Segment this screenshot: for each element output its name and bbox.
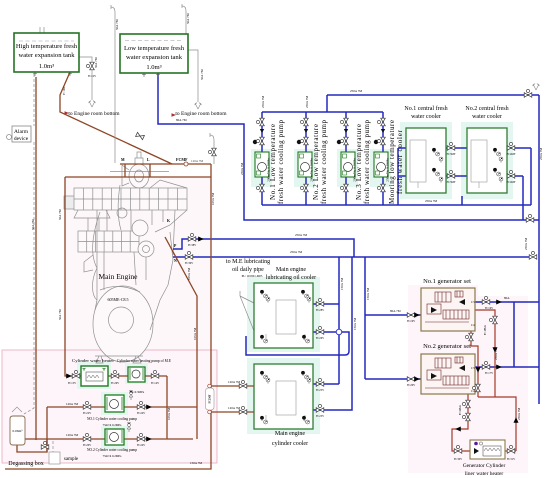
svg-text:50A 7M: 50A 7M bbox=[94, 57, 98, 68]
svg-text:No.2 generator set: No.2 generator set bbox=[423, 343, 471, 350]
svg-text:FC22V: FC22V bbox=[83, 412, 91, 415]
svg-text:80A 7M: 80A 7M bbox=[390, 309, 401, 313]
svg-text:Alarm: Alarm bbox=[14, 129, 29, 135]
svg-text:250A 7M: 250A 7M bbox=[295, 233, 307, 237]
svg-text:50A 7M: 50A 7M bbox=[200, 69, 204, 80]
svg-text:FC20V: FC20V bbox=[83, 444, 91, 447]
svg-text:250A 7M: 250A 7M bbox=[305, 96, 309, 108]
svg-text:FC23V: FC23V bbox=[316, 415, 324, 418]
svg-text:FC14V: FC14V bbox=[151, 382, 159, 385]
svg-text:FCMF: FCMF bbox=[176, 157, 188, 162]
svg-text:NO.1 Cylinder water cooling pu: NO.1 Cylinder water cooling pump bbox=[87, 416, 138, 421]
svg-text:K: K bbox=[167, 219, 170, 223]
svg-text:No.1 generator set: No.1 generator set bbox=[423, 278, 471, 285]
svg-text:50A 7M: 50A 7M bbox=[186, 13, 190, 24]
svg-text:250A 7M: 250A 7M bbox=[517, 408, 521, 420]
svg-text:FC25V: FC25V bbox=[316, 389, 324, 392]
svg-text:80A 7M: 80A 7M bbox=[176, 118, 187, 122]
svg-text:75m³/h 0.2MPa: 75m³/h 0.2MPa bbox=[103, 454, 122, 458]
svg-text:50A 7M: 50A 7M bbox=[58, 309, 62, 320]
svg-text:FC28V: FC28V bbox=[316, 309, 324, 312]
svg-text:FC4MF: FC4MF bbox=[507, 153, 516, 156]
svg-text:105A 7M: 105A 7M bbox=[167, 408, 171, 420]
svg-text:250A 7M: 250A 7M bbox=[261, 96, 265, 108]
svg-text:605ME-C8.5: 605ME-C8.5 bbox=[108, 297, 129, 302]
svg-text:C3: C3 bbox=[471, 366, 475, 370]
svg-text:FC26V: FC26V bbox=[316, 337, 324, 340]
svg-text:No.1 central fresh: No.1 central fresh bbox=[404, 105, 447, 112]
svg-text:150A 7M: 150A 7M bbox=[353, 318, 357, 330]
svg-text:Low temperature fresh: Low temperature fresh bbox=[124, 45, 185, 52]
svg-text:C3: C3 bbox=[471, 300, 475, 304]
svg-text:FC16V: FC16V bbox=[485, 307, 493, 310]
svg-text:FC30V: FC30V bbox=[454, 458, 462, 461]
svg-text:N: N bbox=[174, 259, 177, 263]
svg-text:50A 7M: 50A 7M bbox=[31, 219, 35, 230]
svg-text:PL: 1D/601-M05: PL: 1D/601-M05 bbox=[242, 274, 263, 278]
svg-text:FC2MF: FC2MF bbox=[209, 394, 212, 403]
svg-text:105A 7M: 105A 7M bbox=[193, 328, 197, 340]
svg-text:water expansion tank: water expansion tank bbox=[126, 54, 183, 61]
svg-text:fresh water cooling pump: fresh water cooling pump bbox=[277, 120, 285, 205]
svg-text:75m³/h 0.2MPa: 75m³/h 0.2MPa bbox=[103, 423, 122, 427]
svg-text:150A 7M: 150A 7M bbox=[340, 278, 344, 290]
svg-text:Main engine: Main engine bbox=[275, 431, 305, 437]
svg-text:water cooler: water cooler bbox=[411, 114, 441, 120]
svg-text:105A 7M: 105A 7M bbox=[211, 193, 215, 205]
svg-text:120A 7M: 120A 7M bbox=[66, 402, 78, 406]
svg-text:80A: 80A bbox=[504, 296, 510, 300]
svg-text:1.0m³: 1.0m³ bbox=[146, 64, 161, 71]
svg-text:150A 7M: 150A 7M bbox=[190, 461, 202, 465]
svg-text:FC19V: FC19V bbox=[407, 320, 415, 323]
svg-text:Main engine: Main engine bbox=[276, 267, 306, 273]
svg-text:sample: sample bbox=[64, 457, 79, 462]
svg-text:Hs=0.3MPa: Hs=0.3MPa bbox=[130, 390, 145, 394]
svg-text:FC15V: FC15V bbox=[68, 382, 76, 385]
svg-text:fresh water cooling pump: fresh water cooling pump bbox=[320, 120, 328, 205]
svg-text:1.0m³: 1.0m³ bbox=[39, 63, 54, 70]
svg-text:to Engine room bottom: to Engine room bottom bbox=[175, 111, 227, 117]
svg-text:105A 7M: 105A 7M bbox=[187, 268, 191, 280]
svg-text:250A 7M: 250A 7M bbox=[240, 163, 244, 175]
svg-text:120A 7M: 120A 7M bbox=[66, 433, 78, 437]
svg-text:oil daily pipe: oil daily pipe bbox=[232, 267, 264, 273]
svg-text:device: device bbox=[14, 136, 29, 142]
svg-text:FC12V: FC12V bbox=[88, 75, 96, 78]
svg-text:lubricating oil cooler: lubricating oil cooler bbox=[266, 275, 316, 281]
svg-text:water cooler: water cooler bbox=[472, 114, 502, 120]
svg-text:cylinder cooler: cylinder cooler bbox=[272, 441, 308, 447]
svg-text:250A 7M: 250A 7M bbox=[524, 238, 528, 250]
svg-text:High temperature fresh: High temperature fresh bbox=[16, 43, 78, 50]
svg-text:FC4MF: FC4MF bbox=[507, 181, 516, 184]
svg-text:120A 7M: 120A 7M bbox=[228, 406, 240, 410]
svg-text:Main Engine: Main Engine bbox=[99, 272, 139, 281]
svg-text:FC20V: FC20V bbox=[407, 384, 415, 387]
svg-text:250A 7M: 250A 7M bbox=[290, 250, 302, 254]
svg-text:120A 7M: 120A 7M bbox=[191, 159, 203, 163]
svg-text:fresh water cooler: fresh water cooler bbox=[396, 129, 404, 194]
svg-text:FC3MF: FC3MF bbox=[447, 153, 456, 156]
svg-text:to Engine room bottom: to Engine room bottom bbox=[68, 111, 120, 117]
svg-text:No.2 central fresh: No.2 central fresh bbox=[465, 105, 508, 112]
svg-text:FC24V: FC24V bbox=[137, 412, 145, 415]
svg-text:Cylinder water heating pump of: Cylinder water heating pump of M.E bbox=[117, 358, 171, 363]
svg-text:Generator Cylinder: Generator Cylinder bbox=[463, 463, 506, 469]
svg-text:FC31V: FC31V bbox=[507, 458, 515, 461]
svg-text:0.06m³: 0.06m³ bbox=[13, 429, 23, 433]
svg-text:FC17V: FC17V bbox=[485, 372, 493, 375]
svg-text:50A 7M: 50A 7M bbox=[58, 209, 62, 220]
svg-text:FC3MF: FC3MF bbox=[447, 181, 456, 184]
svg-text:FC39V: FC39V bbox=[185, 262, 193, 265]
svg-text:FC18Mx: FC18Mx bbox=[484, 324, 487, 335]
svg-text:250A 7M: 250A 7M bbox=[425, 199, 437, 203]
svg-text:C4: C4 bbox=[471, 323, 475, 327]
svg-text:Degassing box: Degassing box bbox=[8, 461, 44, 467]
svg-text:liner water heater: liner water heater bbox=[465, 471, 504, 477]
svg-text:250A 7M: 250A 7M bbox=[539, 148, 543, 160]
svg-text:fresh water cooling pump: fresh water cooling pump bbox=[363, 120, 371, 205]
svg-text:120A 7M: 120A 7M bbox=[228, 380, 240, 384]
svg-text:NO.2 Cylinder water cooling pu: NO.2 Cylinder water cooling pump bbox=[87, 447, 138, 452]
svg-text:250A 7M: 250A 7M bbox=[494, 348, 498, 360]
svg-text:FC26V: FC26V bbox=[111, 382, 119, 385]
svg-text:150A 7M: 150A 7M bbox=[366, 288, 370, 300]
svg-text:water expansion tank: water expansion tank bbox=[18, 52, 75, 59]
svg-text:FC38V: FC38V bbox=[188, 244, 196, 247]
svg-text:Cylinder water heater: Cylinder water heater bbox=[72, 358, 115, 363]
svg-text:M: M bbox=[121, 158, 125, 162]
svg-text:to M.E lubricating: to M.E lubricating bbox=[226, 259, 270, 265]
svg-text:FC1MF: FC1MF bbox=[63, 86, 66, 95]
svg-text:50A 7M: 50A 7M bbox=[115, 19, 119, 30]
svg-text:FC24V: FC24V bbox=[137, 444, 145, 447]
svg-text:250A 7M: 250A 7M bbox=[350, 89, 362, 93]
svg-text:FC34Mx: FC34Mx bbox=[459, 404, 462, 415]
